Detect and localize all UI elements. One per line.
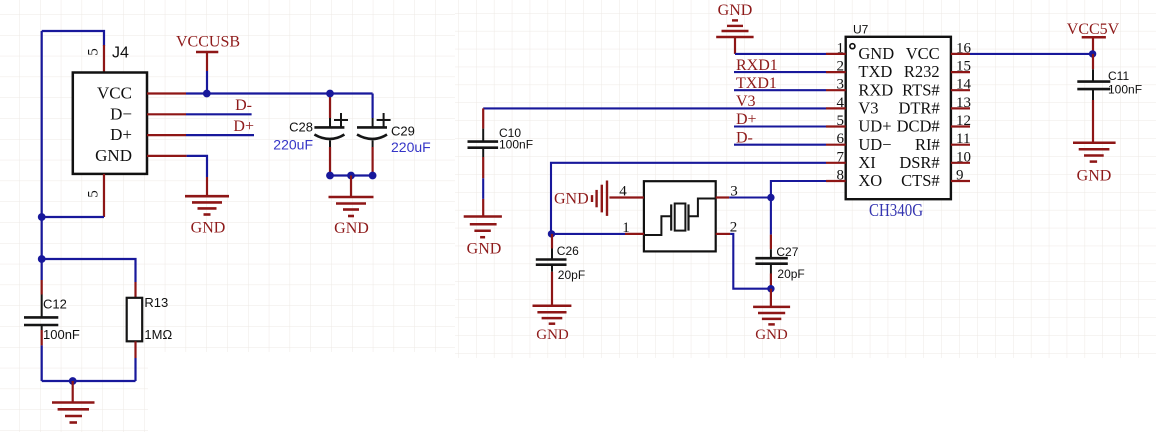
junction C28 bottom [326,172,334,180]
svg-text:C26: C26 [557,244,579,258]
ground under C26 [533,306,572,343]
svg-text:20pF: 20pF [777,267,804,281]
svg-text:4: 4 [619,184,627,200]
svg-text:XI: XI [858,153,875,172]
svg-text:R13: R13 [144,295,168,310]
wire to R13 top [42,259,136,282]
svg-text:100nF: 100nF [43,327,80,342]
svg-text:D+: D+ [233,118,254,135]
svg-text:14: 14 [956,77,972,93]
svg-text:GND: GND [554,191,589,208]
junction XO crystal C27 [767,194,774,201]
wire VCCUSB to VCC net [206,71,208,94]
junction VCC5V pin16 C11 [1089,50,1096,57]
svg-text:C28: C28 [289,120,313,135]
crystal pin 3 stub [716,184,738,200]
crystal pin 2 stub [716,219,738,235]
ground sideways at crystal pin 4 [554,181,607,216]
junction bottom ground stem [69,377,77,385]
junction C27 bottom crystal pin 2 [767,285,774,292]
capacitor C28 [273,96,348,176]
svg-text:RI#: RI# [915,135,940,154]
ground under C28 C29 [329,176,374,238]
junction C29 bottom [369,172,377,180]
capacitor C26 [536,234,585,306]
svg-text:VCC: VCC [97,84,132,103]
svg-text:220uF: 220uF [273,137,313,153]
power port GND inverted top [716,2,753,54]
wire VCC net horizontal [186,92,373,94]
wire TXD1 to pin 3 [734,75,826,92]
svg-text:100nF: 100nF [499,138,533,152]
svg-text:R232: R232 [904,62,940,81]
svg-text:TXD1: TXD1 [736,75,777,92]
U7 left pin names [858,44,894,190]
svg-text:D-: D- [736,129,753,146]
svg-text:8: 8 [837,168,845,184]
ground under C27 [753,289,790,343]
wire RXD1 to pin 2 [734,57,826,74]
svg-text:D+: D+ [110,125,132,144]
J4 bottom pin 5 stub [86,174,105,217]
svg-text:GND: GND [755,327,788,343]
junction at left vertical and bottom pin wire [38,213,46,221]
svg-text:1MΩ: 1MΩ [144,327,172,342]
svg-text:220uF: 220uF [391,139,431,155]
resistor R13 [127,282,173,358]
svg-text:16: 16 [956,40,972,56]
svg-text:C11: C11 [1108,69,1129,83]
svg-text:D−: D− [110,104,132,123]
svg-text:1: 1 [837,40,845,56]
wire XO net to pin 8 [771,181,826,198]
svg-text:C12: C12 [43,297,67,312]
J4 D+ pin stub [147,134,186,136]
svg-text:V3: V3 [858,99,878,118]
svg-text:RXD1: RXD1 [736,57,778,74]
power port VCCUSB [176,34,240,72]
wire XI to crystal pin 1 [551,233,625,235]
svg-text:4: 4 [837,95,845,111]
svg-text:GND: GND [1077,168,1112,185]
svg-text:GND: GND [467,241,502,258]
svg-text:20pF: 20pF [558,268,585,282]
wire pin 16 to VCC5V [970,53,1093,55]
svg-text:GND: GND [334,220,369,237]
power port VCC5V [1067,21,1120,54]
J4 VCC pin stub [147,92,186,94]
crystal pin 4 stub [609,184,644,200]
wire D- net [186,97,252,114]
svg-text:GND: GND [95,146,132,165]
svg-text:C29: C29 [391,124,415,139]
J4 D- pin stub [147,113,186,115]
svg-text:7: 7 [837,149,845,165]
svg-text:GND: GND [858,44,894,63]
capacitor C29 [357,94,431,176]
svg-text:5: 5 [86,190,102,198]
capacitor C27 [755,198,804,289]
svg-text:C27: C27 [776,245,798,259]
ground under C11 [1073,143,1116,185]
wire crystal pin 2 to C27 bottom [730,234,771,289]
svg-text:UD−: UD− [858,135,891,154]
svg-text:CTS#: CTS# [901,171,940,190]
svg-text:GND: GND [191,220,226,237]
svg-text:DCD#: DCD# [897,117,940,136]
ground bottom left [52,381,95,423]
capacitor C10 [468,108,534,216]
U7 right pin names [897,44,940,190]
svg-text:10: 10 [956,149,971,165]
wire XI net to pin 7 [551,163,826,234]
svg-text:VCC: VCC [906,44,940,63]
U7 left pin stubs and numbers [826,40,846,183]
wire bottom connecting C12 and R13 [42,345,136,381]
J4 GND pin stub [147,155,187,157]
wire D+ net [186,118,254,135]
wire GND to pin 1 [735,53,826,55]
svg-text:J4: J4 [112,45,129,62]
junction ground stem [347,172,355,180]
ground under C10 [464,217,502,258]
svg-text:100nF: 100nF [1108,83,1142,97]
wire C28 C29 bottoms [330,174,373,176]
wire D+ to pin 5 [734,111,826,128]
svg-text:RTS#: RTS# [902,80,940,99]
svg-text:V3: V3 [736,93,756,110]
svg-text:6: 6 [837,131,845,147]
svg-text:5: 5 [837,113,845,129]
svg-text:9: 9 [956,168,964,184]
junction VCCUSB on VCC net [203,90,211,98]
junction C28 top on VCC net [326,90,334,98]
svg-text:12: 12 [956,113,971,129]
svg-text:GND: GND [536,327,569,343]
connector J4 top pin 5 stub [86,45,105,73]
svg-text:11: 11 [956,131,970,147]
svg-text:GND: GND [718,2,753,19]
wire crystal pin 3 to XO [729,196,771,198]
svg-text:2: 2 [837,59,845,75]
junction left vertical to R13 branch [38,255,46,263]
crystal Y1 body [644,181,716,251]
capacitor C11 [1077,54,1142,143]
svg-text:DSR#: DSR# [899,153,939,172]
svg-text:13: 13 [956,95,971,111]
crystal pin 1 stub [622,220,644,236]
svg-text:U7: U7 [853,23,869,37]
svg-text:D+: D+ [736,111,757,128]
svg-text:3: 3 [837,77,845,93]
wire J4 GND to ground [187,156,207,177]
svg-text:VCCUSB: VCCUSB [176,34,240,51]
svg-text:VCC5V: VCC5V [1067,21,1120,38]
svg-text:15: 15 [956,59,971,75]
wire D- to pin 6 [734,129,826,146]
svg-text:XO: XO [858,171,882,190]
connector J4 body [73,45,147,174]
wire J4 bottom pin to left vertical [42,216,104,218]
svg-text:TXD: TXD [858,62,892,81]
svg-text:RXD: RXD [858,80,893,99]
wire V3 to pin 4 [483,93,826,110]
svg-text:D-: D- [235,97,252,114]
svg-text:CH340G: CH340G [869,200,923,220]
IC U7 CH340G body [846,23,951,221]
wire left vertical loop [42,31,104,280]
svg-text:5: 5 [86,48,102,56]
ground under J4 [185,177,229,237]
U7 right pin stubs and numbers [951,40,972,183]
capacitor C12 [24,280,80,345]
svg-text:UD+: UD+ [858,117,891,136]
junction XI C26 [548,230,555,237]
svg-text:DTR#: DTR# [898,99,939,118]
